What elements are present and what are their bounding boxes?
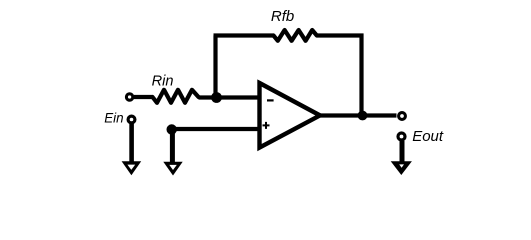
node inverting input junction: [211, 92, 222, 103]
svg-text:Rfb: Rfb: [271, 8, 294, 25]
resistor Rin: [153, 90, 199, 103]
terminal Ein ground circle: [128, 116, 135, 123]
terminal input circle: [126, 94, 132, 100]
wire Rfb top right: [317, 33, 364, 37]
svg-text:Eout: Eout: [412, 128, 444, 145]
ground: [163, 162, 182, 176]
node output junction: [358, 111, 368, 121]
terminal Eout ground circle: [398, 133, 405, 140]
wire middle stem: [170, 130, 175, 164]
svg-text:Ein: Ein: [104, 111, 123, 126]
op-amp U1: [260, 83, 321, 148]
pin label plus: [263, 122, 270, 129]
wire Rfb top left: [214, 33, 274, 37]
wire Eout stem: [400, 141, 405, 162]
wire Rfb left vertical: [213, 36, 217, 98]
wire Ein stem: [129, 124, 134, 163]
node noninverting junction: [167, 124, 177, 134]
ground: [391, 161, 412, 175]
pin label minus: [267, 99, 274, 101]
wire Rfb right vertical: [359, 34, 363, 116]
terminal output circle: [399, 113, 406, 120]
wire Rin to op-amp inverting input: [199, 95, 262, 99]
wire op-amp output: [320, 113, 397, 117]
resistor Rfb: [274, 30, 317, 41]
ground: [122, 161, 142, 175]
wire input to Rin: [134, 95, 153, 99]
svg-text:Rin: Rin: [152, 74, 174, 90]
wire noninverting input: [172, 127, 261, 131]
